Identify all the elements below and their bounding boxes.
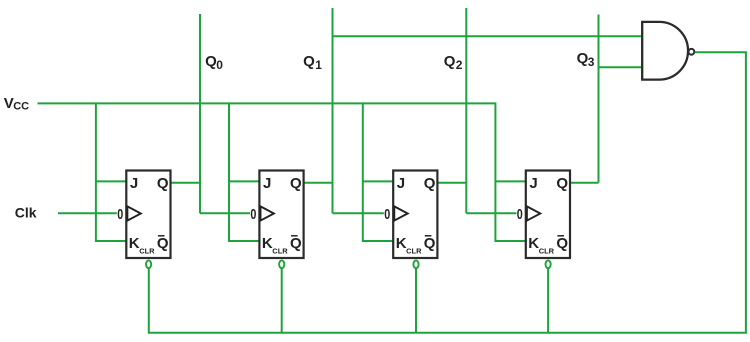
svg-text:J: J (130, 175, 138, 192)
svg-text:CLR: CLR (272, 247, 288, 256)
svg-text:0: 0 (384, 207, 390, 223)
wire Q1 to NAND input A (333, 35, 643, 37)
svg-text:Q: Q (424, 235, 436, 252)
svg-text:J: J (529, 175, 537, 192)
flip-flop FF2 (250, 171, 303, 259)
svg-text:CLR: CLR (406, 247, 422, 256)
svg-text:Q: Q (424, 175, 436, 192)
svg-text:Q: Q (556, 175, 568, 192)
svg-text:Q: Q (157, 175, 169, 192)
svg-text:0: 0 (517, 207, 523, 223)
wire Q3 to NAND input B (599, 66, 643, 68)
CLR bubble (active-low) FF4 (546, 260, 551, 268)
wire CLR riser FF2 (281, 268, 283, 332)
wire Vcc rail (38, 102, 496, 104)
wire Clk input (58, 212, 117, 214)
svg-text:Q: Q (444, 53, 456, 70)
svg-text:K: K (396, 235, 407, 252)
CLR bubble (active-low) FF1 (146, 260, 151, 268)
flip-flop FF3 (384, 171, 437, 259)
label Q0 (205, 53, 223, 72)
wire NAND output to CLR bus (149, 52, 746, 332)
wire Vcc to J,K of FF4 (495, 102, 525, 241)
svg-text:CLR: CLR (139, 247, 155, 256)
wire Vcc to J,K of FF3 (363, 102, 393, 241)
wire Vcc to J,K of FF2 (229, 102, 259, 241)
svg-text:J: J (263, 175, 271, 192)
svg-text:J: J (397, 175, 405, 192)
svg-text:Clk: Clk (15, 205, 37, 221)
svg-text:0: 0 (216, 58, 223, 72)
label Q1 (303, 53, 322, 72)
svg-text:CC: CC (13, 101, 29, 113)
node Q3 wire (FF4 Q output up to label) (570, 15, 599, 183)
svg-text:2: 2 (456, 58, 463, 72)
CLR bubble (active-low) FF2 (279, 260, 284, 268)
svg-text:K: K (129, 235, 140, 252)
CLR bubble (active-low) FF3 (413, 260, 418, 268)
wire CLR riser FF3 (415, 268, 417, 332)
svg-text:Q: Q (157, 235, 169, 252)
svg-text:0: 0 (250, 207, 256, 223)
svg-text:Q: Q (290, 175, 302, 192)
svg-text:CLR: CLR (539, 247, 555, 256)
wire Vcc to J,K of FF1 (96, 102, 126, 241)
svg-text:1: 1 (315, 58, 322, 72)
flip-flop FF4 (517, 171, 570, 259)
NAND gate U1 (642, 22, 694, 80)
svg-text:0: 0 (117, 207, 123, 223)
svg-text:K: K (262, 235, 273, 252)
node Q2 wire (FF3 Q output to FF4 clock) (437, 8, 516, 213)
label Q3 (577, 50, 595, 69)
label Q2 (444, 53, 463, 72)
label Vcc (4, 95, 29, 113)
svg-text:K: K (528, 235, 539, 252)
flip-flop FF1 (117, 171, 170, 259)
svg-text:Q: Q (290, 235, 302, 252)
node Q1 wire (FF2 Q output to FF3 clock) (304, 8, 384, 213)
wire CLR riser FF4 (547, 268, 549, 332)
node Q0 wire (FF1 Q output to FF2 clock) (171, 14, 251, 213)
svg-text:3: 3 (588, 55, 595, 69)
svg-text:Q: Q (303, 53, 315, 70)
svg-text:Q: Q (556, 235, 568, 252)
